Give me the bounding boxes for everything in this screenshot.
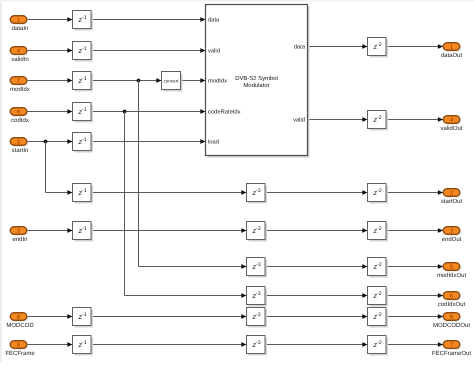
- svg-text:load: load: [208, 139, 219, 146]
- svg-text:validIn: validIn: [11, 56, 28, 63]
- svg-text:-2: -2: [377, 340, 382, 346]
- svg-text:valid: valid: [293, 117, 305, 124]
- svg-text:-1: -1: [82, 76, 87, 82]
- svg-text:dataOut: dataOut: [441, 52, 463, 59]
- svg-text:endIn: endIn: [12, 236, 27, 243]
- svg-text:codIdx: codIdx: [11, 117, 29, 124]
- svg-text:1: 1: [450, 45, 453, 51]
- svg-text:-1: -1: [82, 107, 87, 113]
- svg-text:5: 5: [17, 343, 20, 349]
- svg-text:Modulator: Modulator: [243, 82, 269, 89]
- svg-text:-2: -2: [377, 188, 382, 194]
- svg-text:2: 2: [450, 191, 453, 197]
- svg-text:data: data: [294, 44, 306, 51]
- svg-text:-3: -3: [256, 262, 261, 268]
- svg-text:startIn: startIn: [12, 147, 29, 154]
- svg-text:data: data: [208, 17, 220, 24]
- svg-text:DVB-S2 Symbol: DVB-S2 Symbol: [235, 75, 278, 82]
- svg-text:dataIn: dataIn: [12, 25, 29, 32]
- svg-text:-2: -2: [377, 262, 382, 268]
- svg-text:startOut: startOut: [441, 198, 463, 205]
- svg-text:FECFrame: FECFrame: [5, 350, 35, 357]
- svg-text:-3: -3: [256, 312, 261, 318]
- svg-text:5: 5: [450, 265, 453, 271]
- svg-text:-1: -1: [82, 226, 87, 232]
- svg-text:-2: -2: [377, 42, 382, 48]
- svg-text:7: 7: [450, 343, 453, 349]
- svg-text:2: 2: [17, 140, 20, 146]
- svg-text:-1: -1: [82, 137, 87, 143]
- svg-text:7: 7: [17, 79, 20, 85]
- svg-text:validOut: validOut: [440, 125, 462, 132]
- svg-text:FECFrameOut: FECFrameOut: [432, 350, 471, 357]
- svg-text:MODCODOut: MODCODOut: [433, 322, 470, 329]
- svg-text:4: 4: [17, 49, 20, 55]
- svg-text:modIdx: modIdx: [10, 86, 30, 93]
- svg-text:-2: -2: [377, 226, 382, 232]
- svg-text:endOut: endOut: [442, 236, 462, 243]
- svg-text:modIdx: modIdx: [208, 78, 227, 85]
- svg-text:-1: -1: [82, 312, 87, 318]
- svg-text:3: 3: [450, 229, 453, 235]
- svg-text:6: 6: [450, 294, 453, 300]
- svg-text:6: 6: [17, 110, 20, 116]
- svg-text:-3: -3: [256, 340, 261, 346]
- svg-text:convert: convert: [163, 78, 179, 83]
- svg-text:codeRateIdx: codeRateIdx: [208, 109, 241, 116]
- svg-text:codIdxOut: codIdxOut: [438, 301, 466, 308]
- svg-text:MODCOD: MODCOD: [6, 322, 34, 329]
- svg-text:-3: -3: [256, 188, 261, 194]
- svg-text:-1: -1: [82, 340, 87, 346]
- svg-text:valid: valid: [208, 48, 220, 55]
- svg-text:8: 8: [17, 315, 20, 321]
- svg-text:4: 4: [450, 118, 453, 124]
- svg-text:-3: -3: [256, 291, 261, 297]
- svg-text:-2: -2: [377, 115, 382, 121]
- svg-text:-1: -1: [82, 15, 87, 21]
- svg-text:modIdxOut: modIdxOut: [437, 272, 467, 279]
- svg-text:1: 1: [17, 18, 20, 24]
- svg-text:-1: -1: [82, 46, 87, 52]
- svg-text:-3: -3: [256, 226, 261, 232]
- svg-text:-2: -2: [377, 312, 382, 318]
- svg-text:8: 8: [450, 315, 453, 321]
- svg-text:3: 3: [17, 229, 20, 235]
- svg-text:-1: -1: [82, 188, 87, 194]
- svg-text:-2: -2: [377, 291, 382, 297]
